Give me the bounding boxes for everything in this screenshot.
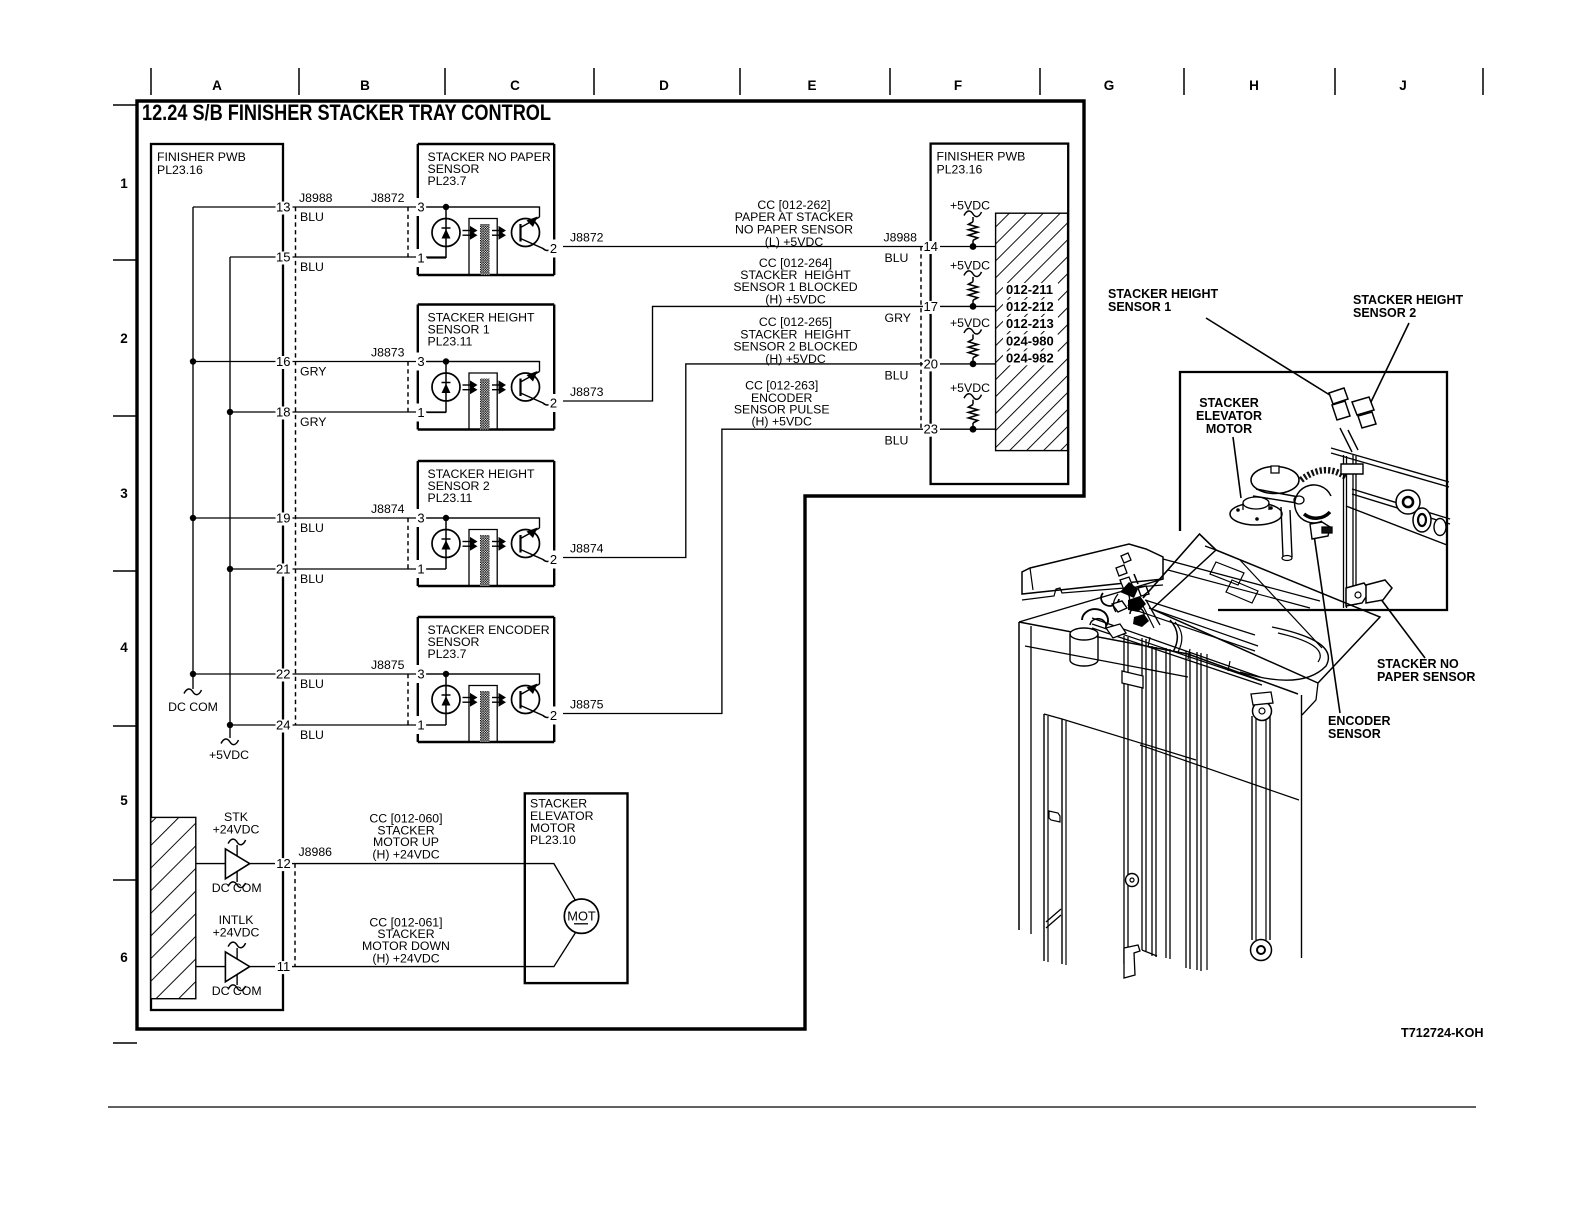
wire color label BLU pin 19	[300, 521, 324, 535]
svg-text:16: 16	[276, 354, 290, 369]
svg-text:SENSOR 2: SENSOR 2	[1353, 306, 1416, 320]
svg-text:012-212: 012-212	[1006, 299, 1054, 314]
pin 3 label	[416, 667, 426, 682]
interrupter slot outline	[469, 373, 497, 430]
svg-text:F: F	[954, 78, 962, 93]
callout label STACKER HEIGHT SENSOR 2	[1353, 293, 1464, 320]
wire J8872 output to pin 14	[563, 246, 996, 248]
svg-text:PL23.11: PL23.11	[428, 335, 473, 349]
svg-text:2: 2	[120, 331, 128, 346]
phototransistor	[512, 217, 550, 251]
interrupter flag (hatched bar)	[480, 691, 490, 742]
label J8874 right	[570, 542, 604, 556]
pin 19 label	[276, 511, 293, 526]
junction dot over LED	[443, 671, 449, 677]
light arrows	[463, 537, 478, 551]
connector J8875 dashed line	[407, 674, 409, 725]
svg-text:3: 3	[417, 200, 424, 215]
main schematic border frame	[137, 101, 1084, 1029]
svg-text:FINISHER PWB: FINISHER PWB	[157, 150, 246, 164]
light arrows	[463, 693, 478, 707]
wire pin3 internal / top rail	[427, 674, 540, 684]
svg-text:SENSOR 1: SENSOR 1	[1108, 300, 1171, 314]
LED emitter diode	[432, 518, 460, 569]
junction dot over LED	[443, 358, 449, 364]
svg-text:PAPER SENSOR: PAPER SENSOR	[1377, 670, 1475, 684]
svg-text:20: 20	[924, 356, 938, 371]
svg-text:2: 2	[550, 396, 557, 411]
STK +24VDC symbol	[213, 810, 260, 856]
wire pin 21	[230, 568, 446, 570]
callout wedge	[1143, 534, 1216, 598]
light arrows	[463, 380, 478, 394]
svg-text:J8988: J8988	[883, 231, 917, 245]
svg-text:PL23.16: PL23.16	[937, 163, 983, 177]
svg-text:15: 15	[276, 250, 290, 265]
svg-text:DC COM: DC COM	[212, 881, 262, 895]
svg-text:J8874: J8874	[570, 542, 604, 556]
fault code text CC [012-264]	[733, 256, 857, 307]
no paper sensor bracket (detail)	[1346, 580, 1392, 606]
finisher PWB (left) PL23.16	[151, 144, 283, 1010]
pin 3 label	[416, 354, 426, 369]
svg-text:MOTOR: MOTOR	[1206, 422, 1252, 436]
svg-text:DC COM: DC COM	[212, 984, 262, 998]
wire J8873 output to pin 17	[563, 306, 996, 401]
svg-text:STACKER HEIGHT: STACKER HEIGHT	[1108, 287, 1219, 301]
wire pin 15	[230, 256, 446, 258]
connector J8874 dashed line	[407, 518, 409, 569]
wire color label BLU pin 21	[300, 572, 324, 586]
pin 17 label	[923, 299, 940, 314]
wire pin 11 to motor	[250, 933, 576, 967]
pin 12 label	[275, 856, 292, 871]
rollers on shaft	[1396, 490, 1446, 536]
svg-text:1: 1	[417, 251, 424, 266]
label J8875 right	[570, 698, 604, 712]
svg-text:DC COM: DC COM	[168, 700, 218, 714]
pin 2 label	[549, 708, 559, 723]
driver STK input wire	[196, 863, 226, 865]
svg-text:1: 1	[417, 562, 424, 577]
svg-text:14: 14	[924, 239, 938, 254]
+5VDC pullup resistor pin 23	[950, 381, 990, 432]
svg-text:3: 3	[120, 486, 128, 501]
svg-text:3: 3	[417, 354, 424, 369]
label J8986	[299, 845, 333, 859]
sensor box STACKER HEIGHT SENSOR 2	[418, 461, 554, 586]
connector J8988 dashed line (right)	[920, 247, 922, 430]
svg-text:BLU: BLU	[885, 368, 909, 382]
svg-text:SENSOR: SENSOR	[1328, 727, 1381, 741]
svg-text:J8986: J8986	[299, 845, 333, 859]
wire color label BLU pin 14	[885, 251, 909, 265]
label J8988 right	[883, 231, 917, 245]
svg-text:J8875: J8875	[570, 698, 604, 712]
interrupter slot outline	[469, 219, 497, 276]
connector J8872 dashed line	[407, 207, 409, 258]
pin 18 label	[276, 405, 293, 420]
wire color label BLU pin 23	[885, 434, 909, 448]
svg-text:12.24 S/B FINISHER STACKER TRA: 12.24 S/B FINISHER STACKER TRAY CONTROL	[142, 100, 551, 125]
connector J8986 dashed line	[294, 864, 296, 967]
INTLK +24VDC symbol	[213, 913, 260, 959]
svg-text:J8988: J8988	[299, 191, 333, 205]
interrupter flag (hatched bar)	[480, 535, 490, 586]
wire color label GRY pin 17	[885, 311, 911, 325]
svg-text:3: 3	[417, 511, 424, 526]
svg-text:024-980: 024-980	[1006, 333, 1054, 348]
INTLK DC COM symbol	[212, 975, 262, 999]
pin 14 label	[923, 239, 940, 254]
LED emitter diode	[432, 362, 460, 413]
sensor box STACKER NO PAPER SENSOR	[418, 144, 554, 275]
pin 1 label	[416, 251, 426, 266]
wire pin3 internal / top rail	[427, 362, 540, 372]
pin 15 label	[276, 250, 293, 265]
leader line encoder sensor	[1314, 535, 1340, 713]
DC COM power symbol	[168, 689, 218, 714]
svg-text:012-213: 012-213	[1006, 316, 1054, 331]
callout label STACKER NO PAPER SENSOR	[1377, 657, 1475, 684]
svg-text:ENCODER: ENCODER	[1328, 714, 1391, 728]
fault code text CC [012-060]	[369, 812, 442, 862]
wire color label BLU pin 22	[300, 677, 324, 691]
svg-text:(H) +24VDC: (H) +24VDC	[372, 952, 439, 966]
pin 24 label	[276, 718, 293, 733]
svg-text:12: 12	[276, 856, 290, 871]
svg-text:+24VDC: +24VDC	[213, 823, 260, 837]
svg-text:(H) +24VDC: (H) +24VDC	[372, 848, 439, 862]
svg-text:22: 22	[276, 667, 290, 682]
svg-text:+5VDC: +5VDC	[209, 748, 249, 762]
wire color label BLU pin 24	[300, 728, 324, 742]
wire pin 13	[193, 206, 540, 208]
fault code text CC [012-263]	[734, 379, 830, 429]
leader line no paper sensor	[1380, 598, 1425, 658]
svg-text:C: C	[510, 78, 520, 93]
wire pin3 internal / top rail	[427, 518, 540, 528]
pin 1 label	[416, 405, 426, 420]
light arrows	[492, 537, 506, 551]
+5VDC pullup resistor pin 14	[950, 199, 990, 250]
connector J8988 dashed line	[295, 207, 297, 725]
svg-text:BLU: BLU	[300, 728, 324, 742]
svg-text:ELEVATOR: ELEVATOR	[1196, 409, 1262, 423]
+5VDC power symbol	[209, 739, 249, 762]
wire bus +5VDC (vertical)	[229, 257, 231, 738]
wire pin 19	[193, 517, 540, 519]
svg-text:6: 6	[120, 950, 128, 965]
svg-text:STACKER NO: STACKER NO	[1377, 657, 1459, 671]
+5VDC pullup resistor pin 17	[950, 258, 990, 309]
svg-text:MOT: MOT	[567, 909, 596, 924]
svg-text:J8873: J8873	[371, 346, 405, 360]
svg-text:B: B	[360, 78, 370, 93]
svg-text:+24VDC: +24VDC	[213, 926, 260, 940]
pin 3 label	[416, 511, 426, 526]
junction dot over LED	[443, 204, 449, 210]
svg-text:J8872: J8872	[570, 231, 604, 245]
height sensor brackets (detail)	[1329, 388, 1376, 452]
row ruler ticks	[113, 105, 137, 1043]
svg-text:5: 5	[120, 793, 128, 808]
wire pin3 internal / top rail	[427, 207, 540, 217]
encoder disc	[1295, 485, 1332, 539]
svg-text:2: 2	[550, 241, 557, 256]
svg-text:PL23.10: PL23.10	[530, 833, 576, 847]
svg-text:D: D	[659, 78, 669, 93]
svg-text:012-211: 012-211	[1006, 282, 1053, 297]
svg-text:21: 21	[276, 562, 290, 577]
svg-text:STACKER: STACKER	[1199, 396, 1259, 410]
light arrows	[463, 226, 478, 240]
pin 13 label	[276, 200, 293, 215]
svg-text:024-982: 024-982	[1006, 350, 1054, 365]
wire pin1 internal	[427, 412, 446, 414]
wire color label BLU pin 20	[885, 368, 909, 382]
wire pin1 internal	[427, 257, 446, 259]
connector J8873 dashed line	[407, 362, 409, 413]
phototransistor	[512, 528, 550, 562]
pin 2 label	[549, 552, 559, 567]
svg-text:PL23.11: PL23.11	[428, 491, 473, 505]
svg-text:18: 18	[276, 405, 290, 420]
wire pin 16	[193, 361, 540, 363]
svg-text:E: E	[807, 78, 816, 93]
junction dots on +5VDC bus	[227, 409, 233, 728]
svg-text:GRY: GRY	[885, 311, 911, 325]
callout label STACKER ELEVATOR MOTOR	[1196, 396, 1262, 436]
interrupter slot outline	[469, 530, 497, 587]
svg-text:BLU: BLU	[300, 677, 324, 691]
svg-text:4: 4	[120, 640, 128, 655]
column letters	[212, 78, 1407, 93]
svg-text:2: 2	[550, 552, 557, 567]
svg-text:BLU: BLU	[300, 260, 324, 274]
svg-text:11: 11	[277, 959, 291, 974]
svg-text:T712724-KOH: T712724-KOH	[1401, 1026, 1484, 1040]
leader line sensor 1	[1206, 318, 1333, 397]
svg-text:J8872: J8872	[371, 191, 405, 205]
pin 21 label	[276, 562, 293, 577]
pin 22 label	[276, 667, 293, 682]
label J8874	[371, 502, 405, 516]
pin 20 label	[923, 356, 940, 371]
elevator motor drawing	[1230, 466, 1304, 561]
LED emitter diode	[432, 207, 460, 258]
wire color label GRY pin 16	[300, 365, 326, 379]
wire pin 12 to motor	[250, 864, 576, 901]
junction dot over LED	[443, 515, 449, 521]
callout label STACKER HEIGHT SENSOR 1	[1108, 287, 1219, 314]
title 12.24 S/B FINISHER STACKER TRAY CONTROL	[142, 100, 551, 125]
svg-text:24: 24	[276, 718, 290, 733]
svg-text:J8875: J8875	[371, 658, 405, 672]
leader line elevator motor	[1233, 437, 1241, 498]
svg-text:G: G	[1104, 78, 1115, 93]
driver INTLK input wire	[196, 966, 226, 968]
svg-text:2: 2	[550, 708, 557, 723]
svg-text:(H) +5VDC: (H) +5VDC	[765, 352, 826, 366]
LED emitter diode	[432, 674, 460, 725]
interrupter flag (hatched bar)	[480, 224, 490, 275]
svg-text:BLU: BLU	[300, 521, 324, 535]
wire pin 18	[230, 411, 446, 413]
svg-text:23: 23	[924, 422, 938, 437]
svg-text:J8873: J8873	[570, 385, 604, 399]
svg-text:H: H	[1249, 78, 1259, 93]
fault code text CC [012-061]	[362, 915, 450, 965]
light arrows	[492, 226, 506, 240]
driver triangle INTLK	[225, 952, 249, 982]
svg-text:STACKER HEIGHT: STACKER HEIGHT	[1353, 293, 1464, 307]
wire pin1 internal	[427, 724, 446, 726]
svg-text:A: A	[212, 78, 222, 93]
gear belt arc	[1301, 470, 1346, 480]
driver triangle STK	[225, 849, 249, 879]
label J8873 right	[570, 385, 604, 399]
pin 3 label	[416, 200, 426, 215]
junction dots on DC COM bus	[190, 358, 196, 677]
svg-text:BLU: BLU	[885, 251, 909, 265]
motor MOT symbol	[564, 899, 598, 933]
hatched area right PWB	[996, 213, 1068, 450]
label J8872 right	[570, 231, 604, 245]
callout label ENCODER SENSOR	[1328, 714, 1391, 741]
light arrows	[492, 380, 506, 394]
wire pin 24	[230, 724, 446, 726]
wire color label BLU pin 13	[300, 210, 324, 224]
pin 1 label	[416, 562, 426, 577]
svg-text:13: 13	[276, 200, 290, 215]
svg-text:+5VDC: +5VDC	[950, 316, 990, 330]
label J8872	[371, 191, 405, 205]
column ruler ticks	[151, 68, 1483, 95]
STK DC COM symbol	[212, 872, 262, 896]
phototransistor	[512, 371, 550, 405]
pin 1 label	[416, 718, 426, 733]
wire bus DC COM (vertical)	[192, 207, 194, 689]
svg-text:1: 1	[120, 176, 128, 191]
label J8875	[371, 658, 405, 672]
svg-text:BLU: BLU	[300, 210, 324, 224]
bottom rule	[108, 1106, 1476, 1108]
drawing number T712724-KOH	[1401, 1026, 1484, 1040]
light arrows	[492, 693, 506, 707]
detail box	[1180, 372, 1447, 610]
wire color label BLU pin 15	[300, 260, 324, 274]
fault code list	[1003, 282, 1058, 365]
wire pin 22	[193, 673, 540, 675]
stacker unit isometric drawing	[1019, 544, 1380, 978]
+5VDC pullup resistor pin 20	[950, 316, 990, 367]
svg-text:(L) +5VDC: (L) +5VDC	[765, 235, 824, 249]
stacker elevator motor box PL23.10	[525, 793, 628, 983]
svg-text:+5VDC: +5VDC	[950, 199, 990, 213]
fault code text CC [012-262]	[735, 198, 854, 249]
svg-text:(H) +5VDC: (H) +5VDC	[765, 292, 826, 306]
pin 2 label	[549, 396, 559, 411]
label J8988	[299, 191, 333, 205]
pin 23 label	[923, 422, 940, 437]
svg-text:(H) +5VDC: (H) +5VDC	[751, 415, 812, 429]
svg-text:19: 19	[276, 511, 290, 526]
sensor box STACKER HEIGHT SENSOR 1	[418, 305, 554, 430]
svg-text:J8874: J8874	[371, 502, 405, 516]
svg-text:1: 1	[417, 405, 424, 420]
svg-text:1: 1	[417, 718, 424, 733]
svg-text:17: 17	[924, 299, 938, 314]
phototransistor	[512, 684, 550, 718]
sensor box STACKER ENCODER SENSOR	[418, 617, 554, 742]
wire J8875 output to pin 23	[563, 429, 996, 713]
shafts	[1331, 448, 1450, 545]
svg-text:GRY: GRY	[300, 365, 326, 379]
wire color label GRY pin 18	[300, 415, 326, 429]
svg-text:BLU: BLU	[885, 434, 909, 448]
svg-text:PL23.7: PL23.7	[428, 174, 467, 188]
svg-text:3: 3	[417, 667, 424, 682]
wire pin1 internal	[427, 568, 446, 570]
svg-text:BLU: BLU	[300, 572, 324, 586]
leader line sensor 2	[1370, 323, 1409, 404]
pin 11 label	[275, 959, 292, 974]
svg-text:+5VDC: +5VDC	[950, 381, 990, 395]
wire J8874 output to pin 20	[563, 364, 996, 558]
interrupter slot outline	[469, 686, 497, 743]
vertical rail (detail)	[1341, 455, 1363, 608]
svg-text:PL23.16: PL23.16	[157, 163, 203, 177]
svg-text:PL23.7: PL23.7	[428, 647, 467, 661]
pin 16 label	[276, 354, 293, 369]
row numbers	[120, 176, 128, 965]
hatched area left PWB	[151, 817, 196, 998]
svg-text:+5VDC: +5VDC	[950, 258, 990, 272]
label J8873	[371, 346, 405, 360]
svg-text:FINISHER PWB: FINISHER PWB	[937, 150, 1026, 164]
svg-text:J: J	[1399, 78, 1407, 93]
svg-text:GRY: GRY	[300, 415, 326, 429]
fault code text CC [012-265]	[733, 315, 857, 366]
pin 2 label	[549, 241, 559, 256]
interrupter flag (hatched bar)	[480, 379, 490, 430]
finisher PWB (right) PL23.16	[931, 144, 1069, 484]
